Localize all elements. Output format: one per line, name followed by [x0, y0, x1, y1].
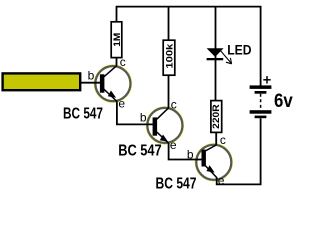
- svg-text:BC 547: BC 547: [118, 143, 162, 160]
- svg-text:b: b: [140, 111, 147, 125]
- svg-text:220R: 220R: [211, 104, 222, 129]
- svg-text:1M: 1M: [112, 33, 123, 47]
- svg-text:e: e: [118, 96, 125, 110]
- svg-text:b: b: [187, 148, 194, 162]
- svg-text:e: e: [218, 173, 225, 187]
- svg-text:BC 547: BC 547: [63, 106, 103, 123]
- svg-text:LED: LED: [227, 43, 251, 58]
- svg-text:c: c: [220, 133, 226, 147]
- svg-text:6v: 6v: [274, 91, 293, 112]
- svg-text:c: c: [120, 55, 126, 69]
- svg-text:BC 547: BC 547: [156, 176, 197, 193]
- svg-text:c: c: [171, 97, 177, 111]
- svg-text:b: b: [88, 69, 95, 83]
- svg-text:100k: 100k: [164, 43, 175, 69]
- svg-text:e: e: [170, 138, 177, 152]
